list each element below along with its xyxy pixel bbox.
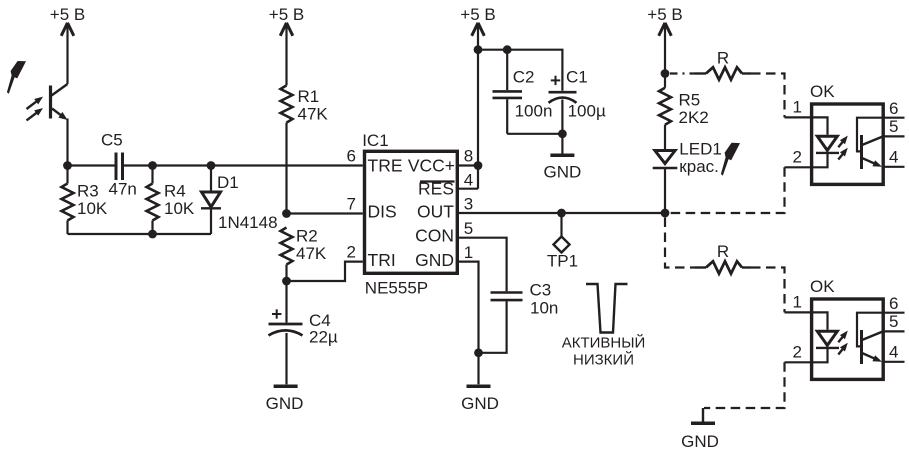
svg-text:1: 1 (793, 98, 802, 117)
resistor R1 47K (281, 85, 329, 123)
optocoupler OK1 (785, 82, 905, 184)
svg-text:100n: 100n (515, 102, 553, 121)
node junction emitter/R3/C5 (63, 161, 72, 170)
svg-text:DIS: DIS (368, 202, 397, 222)
power +5V supply 3 (VCC) (460, 5, 495, 189)
node junction R4 bottom (148, 230, 157, 239)
svg-text:R1: R1 (298, 87, 320, 106)
svg-text:R2: R2 (296, 227, 318, 246)
ground symbol under C1 (544, 134, 582, 182)
svg-text:TRI: TRI (368, 250, 396, 270)
svg-text:2: 2 (793, 147, 802, 166)
svg-text:R4: R4 (164, 182, 186, 201)
node junction C1/C2/GND (558, 129, 567, 138)
svg-text:+5 В: +5 В (269, 5, 304, 24)
svg-text:5: 5 (464, 219, 473, 238)
resistor R3 (62, 166, 108, 235)
svg-text:LED1: LED1 (679, 140, 722, 159)
wire GND pin 1 down (458, 262, 479, 385)
svg-text:NE555P: NE555P (365, 279, 428, 298)
ground symbol bottom right (681, 408, 719, 451)
svg-text:4: 4 (464, 170, 473, 189)
wire C5 to IC pin 6 (124, 164, 363, 166)
svg-text:C2: C2 (513, 67, 535, 86)
node junction TP1 (557, 209, 566, 218)
node junction R4 top (148, 161, 157, 170)
svg-text:НИЗКИЙ: НИЗКИЙ (573, 351, 634, 369)
svg-text:GND: GND (266, 394, 304, 413)
node junction D1 top (207, 161, 216, 170)
label active low (562, 334, 646, 369)
node junction C3/pin1 (474, 348, 483, 357)
wire pin 4 stub (458, 188, 478, 190)
svg-text:47K: 47K (296, 244, 327, 263)
power +5V supply 4 (R5) (647, 5, 682, 88)
svg-text:R5: R5 (679, 91, 701, 110)
svg-text:6: 6 (347, 147, 356, 166)
resistor R4 (147, 166, 195, 235)
IC IC1 NE555P timer (362, 131, 457, 298)
svg-text:8: 8 (464, 147, 473, 166)
wire TRI jog to R2 bottom (287, 262, 363, 281)
svg-text:2: 2 (347, 243, 356, 262)
svg-text:7: 7 (347, 195, 356, 214)
wire CON pin 5 to C3 (458, 238, 507, 292)
wire OUT pin 3 (458, 212, 665, 214)
diode D1 1N4148 (201, 166, 278, 235)
svg-text:C3: C3 (530, 280, 552, 299)
svg-text:крас.: крас. (679, 157, 719, 176)
svg-text:GND: GND (544, 163, 582, 182)
svg-text:100µ: 100µ (568, 102, 606, 121)
capacitor C1 100u polarized (549, 67, 606, 134)
lightning bolt at LED1 (721, 143, 740, 176)
ground symbol under pin 1 (461, 386, 499, 413)
wire pin 8 stub (458, 164, 478, 166)
wire dashed OK2 pin 2 to bottom ground (704, 362, 785, 408)
svg-text:C5: C5 (101, 131, 123, 150)
svg-text:АКТИВНЫЙ: АКТИВНЫЙ (562, 334, 646, 352)
svg-text:GND: GND (415, 250, 454, 270)
svg-text:3: 3 (464, 195, 473, 214)
node junction R1/R2/DIS (282, 209, 291, 218)
resistor R2 47K (281, 227, 327, 282)
wire dashed OUT node down and right to R bottom (665, 218, 695, 268)
capacitor C3 10n (479, 280, 559, 353)
svg-text:2K2: 2K2 (679, 108, 709, 127)
node junction R5 top / R dashed (661, 69, 670, 78)
svg-text:D1: D1 (217, 173, 239, 192)
capacitor C4 22u polarized (269, 281, 338, 384)
svg-text:10K: 10K (77, 199, 108, 218)
svg-text:TRE: TRE (368, 156, 403, 176)
svg-text:GND: GND (681, 432, 719, 451)
svg-text:10K: 10K (164, 199, 195, 218)
capacitor C2 100n (493, 50, 553, 134)
svg-text:+5 В: +5 В (647, 5, 682, 24)
svg-text:47K: 47K (298, 105, 329, 124)
svg-text:C1: C1 (566, 67, 588, 86)
node junction R2/C4/TRI (282, 277, 291, 286)
wire emitter down (66, 119, 68, 166)
svg-text:+5 В: +5 В (50, 5, 85, 24)
svg-text:OUT: OUT (417, 202, 454, 222)
wire dashed R bottom to OK2 pin 1 (751, 268, 785, 313)
node junction VCC top (474, 45, 483, 54)
svg-text:TP1: TP1 (547, 252, 578, 271)
wire C2 bottom to C1 bottom (507, 133, 562, 135)
svg-text:1: 1 (464, 243, 473, 262)
svg-text:1N4148: 1N4148 (218, 213, 278, 232)
svg-text:+5 В: +5 В (460, 5, 495, 24)
svg-text:22µ: 22µ (309, 328, 338, 347)
svg-text:6: 6 (889, 99, 898, 118)
wire bottom net R3-R4-D1 (68, 233, 212, 235)
svg-text:4: 4 (889, 147, 898, 166)
capacitor C5 (101, 131, 137, 199)
svg-text:OK: OK (810, 82, 835, 101)
svg-text:5: 5 (889, 117, 898, 136)
svg-text:CON: CON (415, 226, 454, 246)
resistor R5 2K2 (659, 88, 709, 151)
power +5V supply 1 (phototransistor) (50, 5, 85, 84)
node junction pin8/VCC (474, 161, 483, 170)
svg-text:10n: 10n (530, 299, 558, 318)
wire R1 bottom to DIS node (285, 123, 287, 214)
svg-text:GND: GND (461, 394, 499, 413)
resistor R (top, horizontal) (695, 49, 751, 80)
light arrows into phototransistor (27, 97, 44, 109)
svg-text:VCC+: VCC+ (408, 156, 455, 176)
phototransistor Q1 (51, 84, 68, 120)
wire dashed R to OK1 pin 1 (751, 74, 785, 118)
power +5V supply 2 (R1) (269, 5, 304, 85)
wire DIS to IC pin 7 (287, 212, 363, 214)
lightning bolt (light symbol) (7, 61, 26, 94)
resistor R (bottom, horizontal) (695, 242, 751, 274)
LED1 red (653, 140, 722, 214)
node junction LED1/OUT (661, 209, 670, 218)
wire VCC top rail to C1 (478, 50, 562, 91)
svg-text:IC1: IC1 (362, 131, 388, 150)
wire dash-dot to resistor R top (670, 72, 695, 74)
ground symbol under C4 (266, 386, 304, 413)
wire node to C5 (68, 164, 115, 166)
svg-text:R3: R3 (77, 182, 99, 201)
wire dashed OK1 pin 2 down to OUT (670, 167, 785, 213)
svg-text:47n: 47n (109, 180, 137, 199)
svg-text:R: R (717, 49, 729, 68)
test point TP1 (547, 213, 578, 271)
svg-text:R: R (717, 242, 729, 261)
optocoupler OK2 (785, 277, 905, 379)
node junction C2 top (503, 45, 512, 54)
active-low pulse symbol (586, 284, 628, 333)
